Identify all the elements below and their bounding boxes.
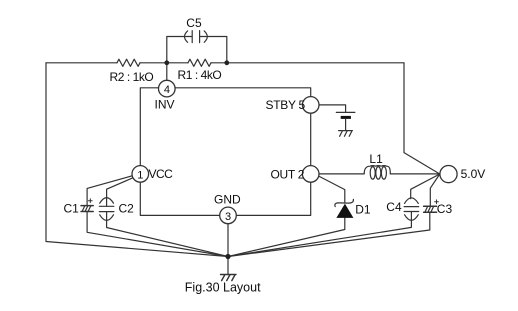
- svg-text:C2: C2: [119, 202, 135, 216]
- svg-text:VCC: VCC: [149, 167, 174, 181]
- capacitor bypass filled plate: [341, 116, 351, 119]
- node 5.0V circle: [440, 166, 457, 183]
- wire C2 to ground junction: [107, 212, 228, 257]
- svg-text:Fig.30 Layout: Fig.30 Layout: [185, 280, 261, 294]
- wire STBY to bypass cap: [319, 105, 346, 113]
- svg-text:OUT 2: OUT 2: [271, 167, 305, 181]
- wire C4 to ground junction: [228, 212, 411, 257]
- svg-text:D1: D1: [355, 202, 371, 216]
- wire pin2 to D1: [320, 177, 345, 203]
- svg-text:INV: INV: [155, 98, 175, 112]
- svg-text:R2 : 1kO: R2 : 1kO: [110, 70, 154, 84]
- wire node A to R1: [167, 62, 188, 64]
- wire pin4 stub: [166, 63, 168, 81]
- capacitor C2: [99, 198, 114, 221]
- wire D1 to ground junction: [228, 218, 345, 257]
- pin 3 circle: [220, 207, 237, 224]
- svg-text:5.0V: 5.0V: [461, 167, 486, 181]
- wire junction to ground symbol: [227, 257, 229, 275]
- capacitor C4: [404, 198, 419, 221]
- wire top bus left segment: [46, 62, 117, 64]
- node B junction dot: [224, 60, 229, 65]
- ground at STBY: [339, 131, 353, 137]
- resistor R2: [117, 59, 140, 66]
- wire pin3 to ground junction: [227, 224, 229, 257]
- resistor R1: [188, 59, 211, 66]
- inductor L1: [364, 166, 390, 180]
- IC box U1: [140, 88, 310, 216]
- wire 5.0V to C3: [430, 174, 440, 206]
- wire pin1 to C2: [107, 178, 134, 207]
- svg-text:C4: C4: [386, 200, 402, 214]
- svg-text:R1 : 4kO: R1 : 4kO: [178, 68, 222, 82]
- diode D1 cathode bar: [335, 199, 354, 206]
- svg-text:1: 1: [137, 169, 143, 181]
- wire pin1 to C1: [87, 176, 133, 206]
- svg-text:4: 4: [164, 84, 170, 96]
- C3 plus mark: [435, 200, 439, 204]
- wire bypass cap to ground: [345, 119, 347, 131]
- wire R1 to node B: [211, 62, 227, 64]
- wire top bus right segment: [227, 62, 404, 64]
- wire pin2 to L1: [319, 173, 364, 175]
- capacitor C3: [424, 206, 437, 212]
- svg-text:GND: GND: [214, 192, 241, 206]
- wire C1 to ground junction: [87, 212, 228, 257]
- wire left outer loop: [46, 63, 228, 257]
- svg-text:C1: C1: [64, 202, 80, 216]
- pin 4 circle: [159, 80, 176, 97]
- wire right outer drop to 5.0V: [404, 63, 440, 174]
- pin 1 circle: [132, 166, 149, 183]
- ground junction dot: [225, 254, 230, 259]
- capacitor C5: [185, 31, 208, 43]
- ground at junction: [221, 275, 237, 281]
- wire C5 left lead: [167, 37, 192, 63]
- C1 plus mark: [88, 199, 92, 203]
- capacitor C1: [81, 206, 93, 212]
- wire C5 right lead: [200, 37, 227, 63]
- svg-text:C5: C5: [186, 16, 202, 30]
- wire between R2 and node A: [140, 62, 167, 64]
- node A junction dot: [164, 60, 169, 65]
- svg-text:L1: L1: [369, 152, 383, 166]
- wire C3 to ground junction: [228, 213, 430, 257]
- wire 5.0V to C4: [411, 174, 440, 199]
- svg-text:C3: C3: [437, 202, 453, 216]
- svg-text:STBY 5: STBY 5: [266, 98, 306, 112]
- svg-text:3: 3: [225, 211, 231, 223]
- pin 5 circle: [302, 97, 319, 114]
- wire L1 to 5.0V node: [390, 173, 440, 175]
- capacitor bypass at STBY top plate: [336, 111, 355, 113]
- pin 2 circle: [302, 166, 319, 183]
- diode D1 triangle: [337, 204, 353, 217]
